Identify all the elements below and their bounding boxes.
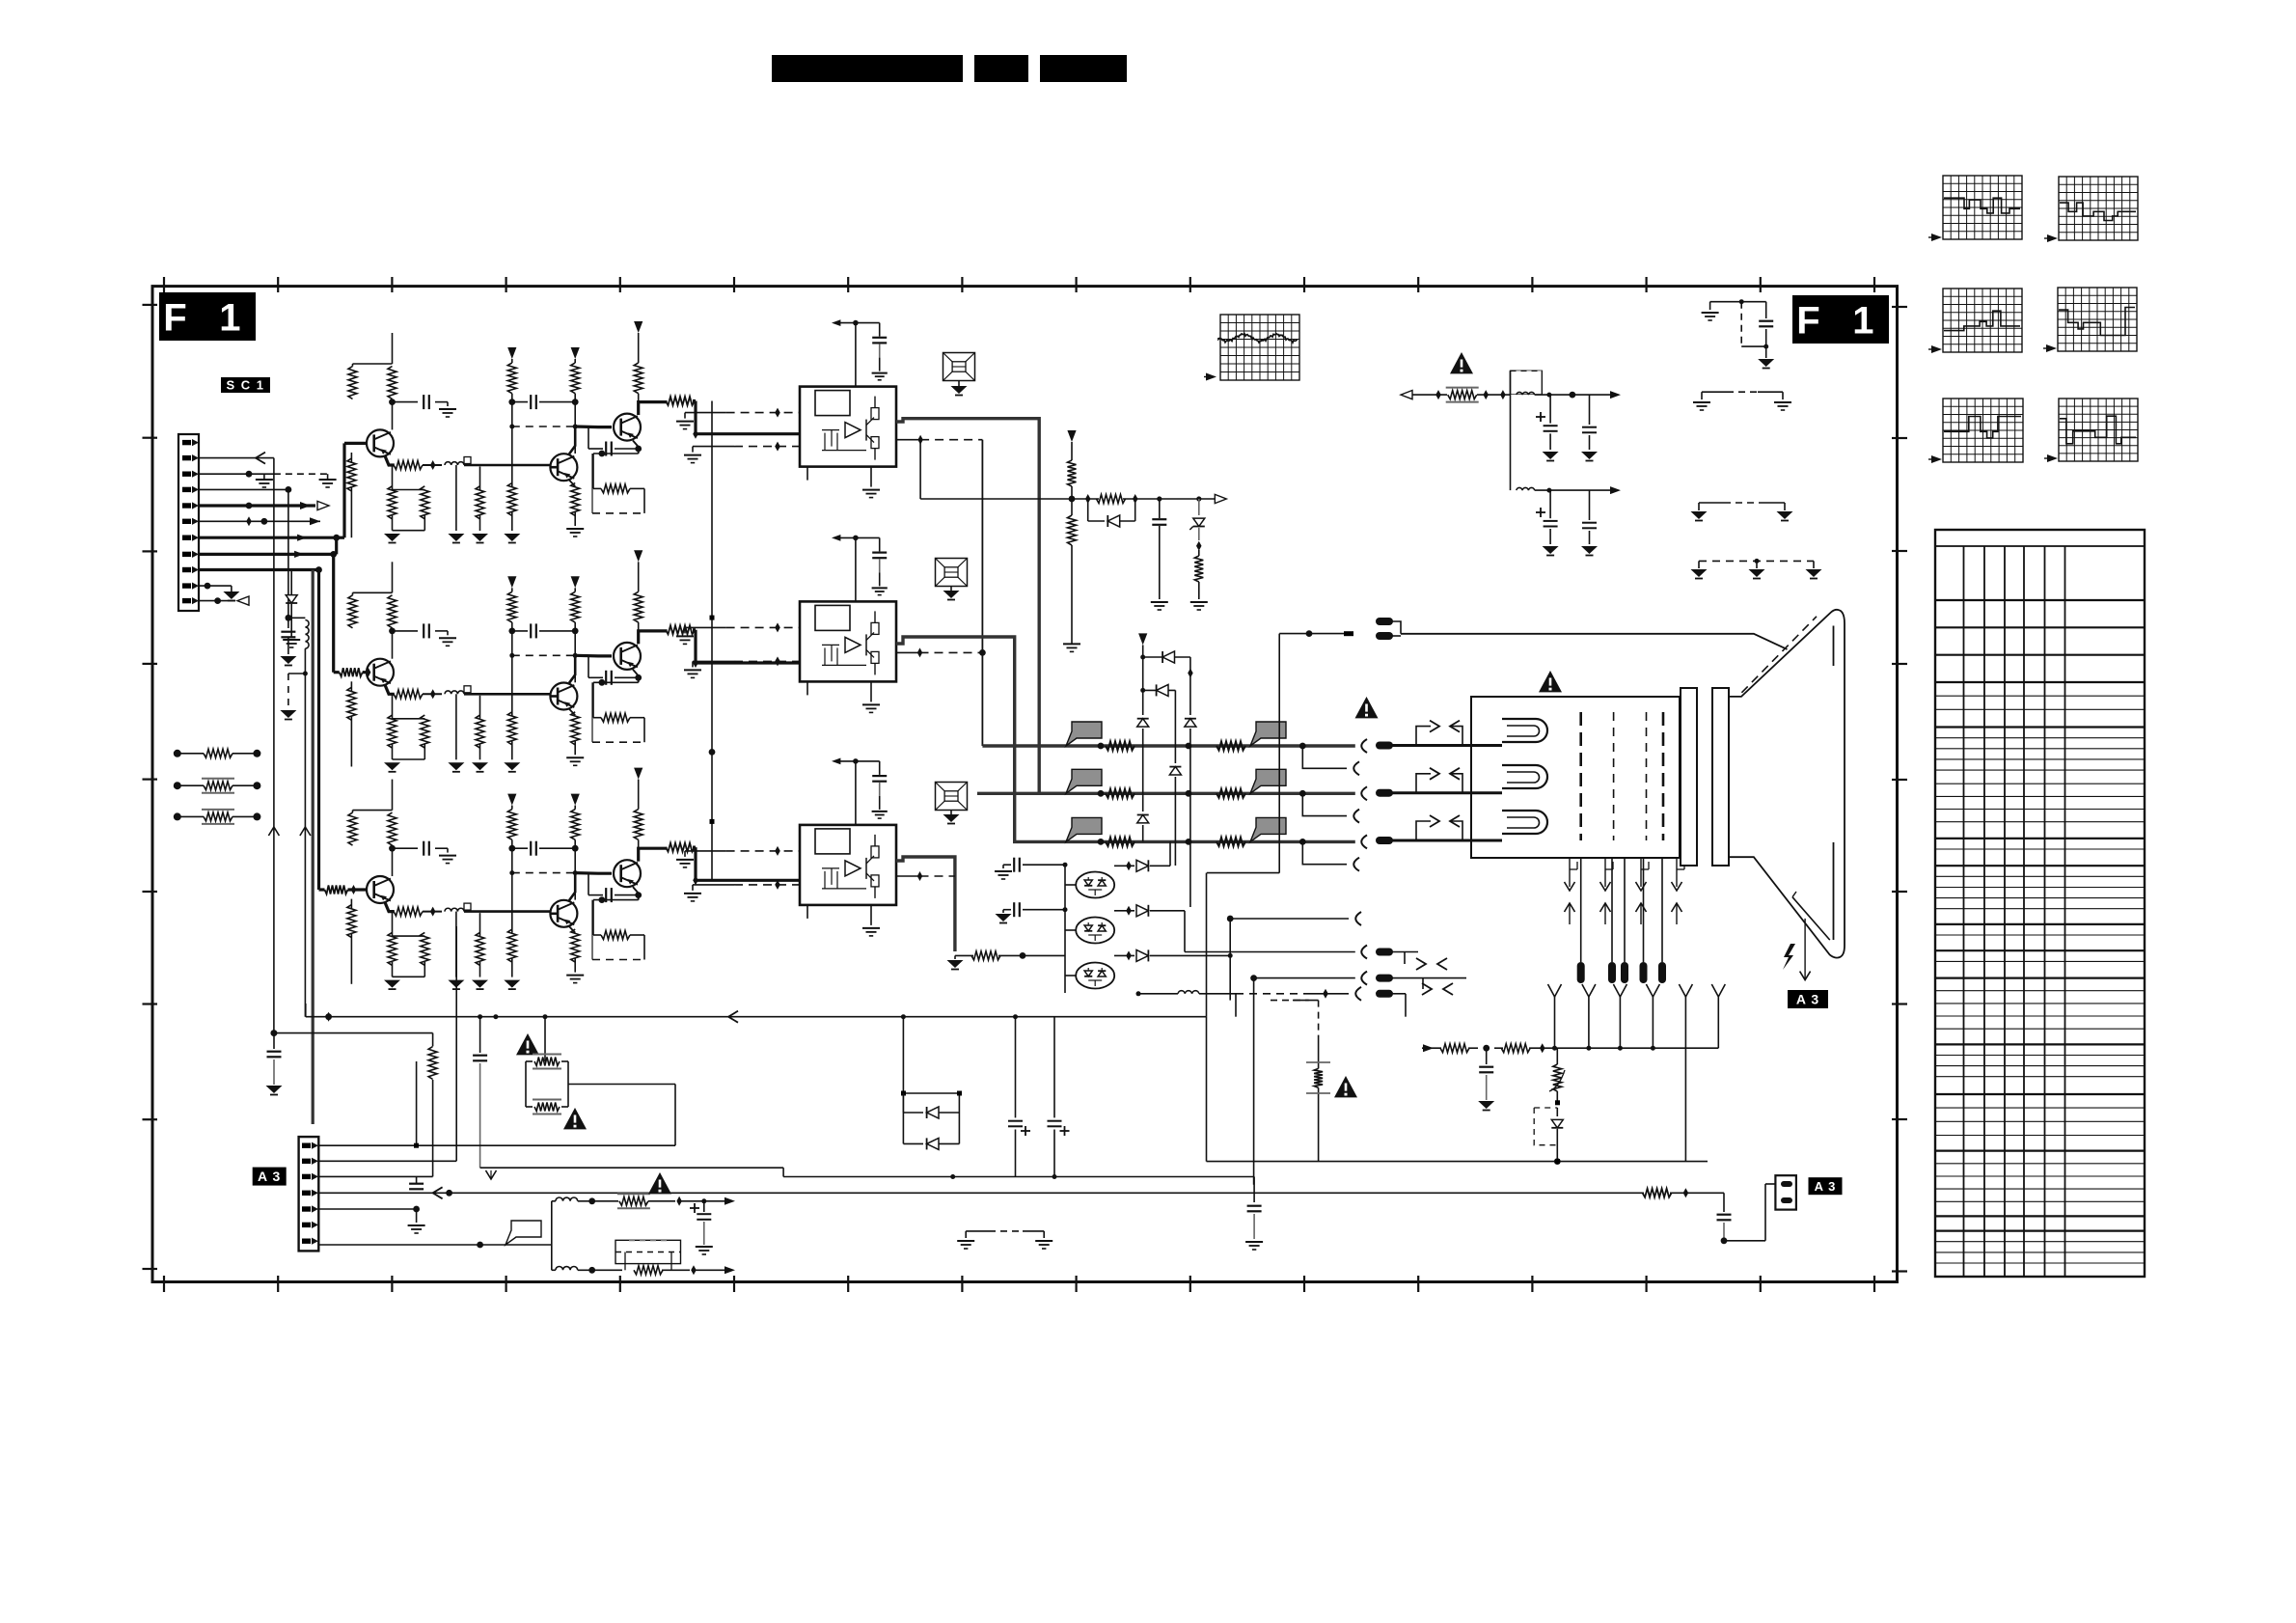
left RC to ground from bus <box>271 1030 278 1036</box>
A3 label near CRT <box>1788 990 1828 1008</box>
diac/opto oval 1 <box>1076 872 1114 898</box>
second supply branch <box>1517 487 1535 490</box>
emitter network <box>385 685 395 695</box>
main horizontal bus lower A <box>1207 1161 1708 1163</box>
dashed bias link <box>512 654 575 656</box>
frame tick marks top/bottom <box>163 277 165 292</box>
supply rail resistor A <box>507 347 516 359</box>
limiter bypass diode <box>1087 499 1089 521</box>
series coil to lower bus <box>288 617 306 619</box>
damping branch <box>455 465 457 531</box>
CRT base spark electrodes (Y) <box>1548 984 1562 997</box>
IC dashed input links <box>726 626 800 628</box>
CRT funnel dashed inner edge <box>1741 617 1817 693</box>
spot killer chain right <box>1423 1044 1434 1052</box>
transistor Q3 output <box>614 643 641 670</box>
fusible safety resistor <box>1448 391 1477 399</box>
waveform scope graticule 6 <box>2059 399 2138 461</box>
SC1 pin <box>182 598 191 603</box>
choke with dashed core box <box>1511 371 1543 394</box>
F1 page label left <box>159 292 256 341</box>
SC1 pin <box>182 487 191 492</box>
title block redacted bar 1 <box>772 55 963 82</box>
Q3 collector resistor <box>634 768 642 780</box>
waveform scope graticule 2 <box>2059 177 2138 240</box>
waveform scope graticule 4 <box>2058 288 2137 351</box>
IC1 output run (thick) <box>896 419 1066 794</box>
Q2-Q3 coupling <box>575 425 612 428</box>
cathode protection diode ladder <box>1138 633 1147 645</box>
SC1 pin <box>182 567 191 572</box>
emitter network <box>385 456 395 466</box>
A3 pin4 wire long with cap <box>318 1192 1644 1194</box>
series resistor A <box>1106 742 1134 751</box>
thermistor drop <box>1556 1048 1558 1064</box>
cathode aux receptacle stubs <box>1299 743 1306 750</box>
IC supply from top <box>832 758 840 765</box>
frame tick marks left/right <box>143 304 158 306</box>
title block redacted bar 2 <box>974 55 1028 82</box>
Q3 collector resistor <box>634 321 642 333</box>
CRT socket receptacle <box>1361 786 1367 800</box>
collector decoupling capacitor <box>389 399 396 405</box>
G1 line with dashes <box>1178 991 1199 994</box>
SC1 fan-out wires <box>199 457 274 459</box>
VDR network bottom middle <box>1271 1000 1309 1002</box>
oval output diodes <box>1114 865 1134 867</box>
SC1 pin <box>182 503 191 508</box>
wire SC1 p9 (thick) <box>199 568 319 571</box>
IC supply from top <box>832 535 840 541</box>
A3 connector body <box>299 1137 319 1251</box>
Q2-Q3 coupling <box>575 871 612 875</box>
stage output to hybrid IC (thick) <box>639 402 668 415</box>
mid vertical taps <box>432 1033 434 1047</box>
series resistor B <box>1216 742 1245 751</box>
probe flag gray B <box>1250 817 1286 841</box>
wire SC1 p3 with ground taps <box>199 473 274 475</box>
supply rail resistor B <box>571 794 580 806</box>
CRT heater filaments <box>1502 719 1547 742</box>
F1 page label right <box>1792 295 1889 344</box>
probe flag gray A <box>1066 817 1102 841</box>
electrolytic caps on bus <box>1015 1017 1017 1118</box>
svg-text:A 3: A 3 <box>1796 992 1819 1007</box>
CRT socket receptacle <box>1361 739 1367 753</box>
deflection yoke <box>1681 688 1697 866</box>
A3 pin7 wire to filter <box>318 1244 479 1246</box>
ground pair bottom <box>965 1231 967 1238</box>
damping branch <box>455 912 457 977</box>
spark gap 3 <box>936 783 968 811</box>
transistor Q2 <box>550 900 577 927</box>
Q3 emitter resistor chain <box>633 887 639 900</box>
waveform scope graticule 1 (top-left of right margin) <box>1943 176 2022 239</box>
CRT anode lead wire <box>1401 634 1788 649</box>
A3 pin <box>302 1223 311 1227</box>
Q3 collector resistor <box>634 550 642 562</box>
probe flag gray B <box>1250 722 1286 746</box>
IC2 aux dashed <box>896 651 920 653</box>
A3 label right <box>1809 1177 1843 1195</box>
SC1 p4 decoupling cap <box>287 489 289 628</box>
left bus verticals descending <box>273 458 275 1033</box>
CRT bulb outline <box>1729 610 1845 958</box>
filter bottom branch with delay line <box>556 1267 578 1271</box>
waveform scope graticule 3 <box>1943 289 2022 352</box>
delay line dashed box <box>615 1240 681 1263</box>
SC1 pin <box>182 472 191 477</box>
warning triangle near CRT socket <box>1355 697 1379 718</box>
IC2 output run (thick) <box>896 637 1066 841</box>
wire SC1 p11 to open arrow <box>199 600 235 602</box>
flashover lightning bolt <box>1783 944 1795 970</box>
A3 pin <box>302 1206 311 1211</box>
branch x1300 cap to ground <box>1253 1177 1255 1203</box>
voltage table at right margin <box>1935 530 2145 1277</box>
IC3 aux dashed <box>896 875 920 877</box>
clamp diode with dashed box <box>1556 1108 1558 1116</box>
wire SC1 p8 (thick) <box>199 553 334 556</box>
transistor Q input <box>319 888 325 891</box>
series resistor A <box>1106 789 1134 798</box>
main schematic border frame <box>152 287 1898 1282</box>
oval feed caps and grounds <box>1003 864 1011 866</box>
Q2 emitter resistor <box>569 481 575 487</box>
transistor Q3 output <box>614 414 641 441</box>
A3 pin <box>302 1143 311 1148</box>
cathode drive line (thick) <box>1066 840 1355 843</box>
filter top branch <box>556 1197 578 1201</box>
supply input arrow <box>1401 391 1412 399</box>
emitter degeneration resistors <box>392 465 394 490</box>
IC1 aux feedback tap <box>896 439 920 441</box>
grid feed line G2 <box>1306 630 1313 637</box>
svg-text:F 1: F 1 <box>1796 299 1884 342</box>
CRT socket terminals (black) <box>1376 618 1393 625</box>
peaking coil <box>445 462 464 465</box>
heater series arrows row1 <box>1392 744 1502 747</box>
wire SC1 p7 (thick) to stage1 base node <box>199 536 340 539</box>
CRT socket receptacle <box>1361 835 1367 848</box>
SC1 pin <box>182 455 191 460</box>
collector decoupling capacitor <box>389 845 396 852</box>
waveform scope graticule 5 <box>1943 399 2023 462</box>
A3 connector right <box>1775 1175 1796 1209</box>
shunt resistor to ground <box>479 913 481 936</box>
heater series arrows row2 <box>1392 791 1502 794</box>
IC internal opamp <box>845 861 861 876</box>
IC ground stub <box>870 681 872 701</box>
electrode lead-outs to pins <box>1580 858 1582 962</box>
ground pair link 2 <box>1698 503 1700 510</box>
IC internal opamp <box>845 423 861 438</box>
peaking coil <box>445 691 464 694</box>
limiter zener <box>1196 496 1201 501</box>
base protection diode <box>290 570 292 595</box>
A3 pin <box>302 1159 311 1164</box>
svg-text:F 1: F 1 <box>163 296 251 339</box>
Q2 emitter resistor <box>569 926 575 933</box>
socket lower pairs <box>1392 951 1418 953</box>
Q2 emitter resistor <box>569 709 575 716</box>
wire SC1 p10 to ground <box>199 585 232 587</box>
collector load resistors <box>392 632 394 658</box>
svg-text:A 3: A 3 <box>258 1169 281 1184</box>
cathode drive line (thick) <box>1066 792 1355 795</box>
spark gap 2 <box>936 559 968 587</box>
Q2-Q3 coupling <box>575 654 612 658</box>
IC internal opamp <box>845 637 861 652</box>
hybrid video output IC <box>800 601 896 681</box>
beam limiter chain <box>1067 430 1076 442</box>
probe flag gray B <box>1250 769 1286 793</box>
emitter network <box>385 902 395 912</box>
heater series arrows row3 <box>1392 839 1502 842</box>
IC dashed input links <box>726 850 800 852</box>
A3 pin2 wire <box>318 1160 456 1162</box>
Q3 feedback cap <box>588 448 603 450</box>
SC1 pin <box>182 536 191 540</box>
supply filter caps branch1 <box>1549 395 1551 424</box>
A3 pin <box>302 1174 311 1179</box>
test point resistor row 1 <box>174 750 181 757</box>
A3 pin <box>302 1191 311 1196</box>
title block redacted bar 3 <box>1040 55 1127 82</box>
probe flag gray A <box>1066 722 1102 746</box>
convergence arrows under gun <box>1569 858 1571 887</box>
warning triangle supply <box>1450 352 1473 373</box>
spark gap 1 <box>943 353 975 381</box>
Q3 feedback cap <box>588 894 603 896</box>
test point resistor row 3 (fusible) <box>174 812 181 820</box>
link from stage area to bus <box>271 1030 278 1036</box>
white probe flag <box>506 1221 541 1245</box>
hybrid video output IC <box>800 387 896 467</box>
double fusible resistor network <box>544 1017 546 1061</box>
waveform scope graticule inside schematic <box>1220 315 1299 380</box>
IC bottom-left stub <box>806 467 808 481</box>
IC bottom-left stub <box>806 905 808 919</box>
Q3 feedback cap <box>588 676 603 678</box>
SC1 pin <box>182 519 191 524</box>
main horizontal bus upper <box>306 1016 1207 1018</box>
interstage coupling cap <box>508 845 515 852</box>
collector load resistors <box>392 850 394 876</box>
right bottom resistor to A3 <box>1643 1189 1672 1197</box>
damping branch <box>455 694 457 759</box>
focus line vertical <box>1278 634 1280 873</box>
IC bottom-left stub <box>806 681 808 695</box>
peaking coil <box>445 908 464 911</box>
lower res feed <box>971 951 1000 960</box>
limiter filter cap <box>1157 496 1162 501</box>
transistor Q3 output <box>614 860 641 887</box>
CRT grid electrodes (dashed) <box>1579 712 1582 840</box>
svg-text:S C 1: S C 1 <box>226 378 264 393</box>
series resistor B <box>1216 838 1245 846</box>
IC dashed input links <box>726 412 800 414</box>
collector load resistors <box>392 403 394 429</box>
CRT gun enclosure <box>1471 697 1680 858</box>
svg-text:A 3: A 3 <box>1815 1179 1837 1194</box>
ground pair link 1 <box>1701 392 1703 399</box>
base bias resistor <box>350 453 352 463</box>
dashed ground stub <box>288 673 306 674</box>
supply rail resistor A <box>507 576 516 588</box>
junction of thick bus to stage bases <box>335 537 338 554</box>
A3 pin5 wire to ground <box>318 1208 416 1210</box>
wire SC1 p6 with arrow <box>199 520 320 522</box>
bridge diodes center-bottom <box>902 1017 904 1144</box>
SC1 pin <box>182 440 191 445</box>
transistor Q input <box>334 671 340 674</box>
test point resistor row 2 (fusible) <box>174 782 181 789</box>
main horizontal bus lower B <box>480 1167 783 1169</box>
transistor Q2 <box>550 683 577 710</box>
shunt resistor to ground <box>479 696 481 719</box>
inter-stage vertical rail <box>711 401 713 881</box>
supply rail resistor B <box>571 576 580 588</box>
wire SC1 p5 (thick) to open arrow <box>199 504 315 507</box>
ground triple link <box>1698 561 1700 568</box>
IC ground stub <box>870 905 872 925</box>
transistor Q input <box>344 442 367 445</box>
base bias resistor <box>350 681 352 692</box>
transistor Q2 <box>550 454 577 481</box>
CRT inner bottom slant <box>1792 897 1830 940</box>
collector decoupling capacitor <box>389 628 396 635</box>
series resistor A <box>1106 838 1134 846</box>
emitter degeneration resistors <box>392 694 394 719</box>
supply rail resistor A <box>507 794 516 806</box>
shunt resistor to ground <box>479 467 481 490</box>
A3 pin <box>302 1239 311 1244</box>
Q3 emitter resistor chain <box>633 441 639 454</box>
interstage coupling cap <box>508 399 515 405</box>
lower tube pin lines <box>1227 916 1234 922</box>
wire SC1 p4 <box>199 488 288 490</box>
hybrid video output IC <box>800 825 896 905</box>
top-right RC to ground cluster <box>1710 301 1766 303</box>
probe flag gray A <box>1066 769 1102 793</box>
interstage coupling cap <box>508 628 515 635</box>
connector SC1 body <box>178 434 199 611</box>
emitter degeneration resistors <box>392 912 394 937</box>
IC supply from top <box>832 319 840 326</box>
base bias resistor <box>350 899 352 910</box>
dashed bias link <box>512 426 575 427</box>
A3 pin3 wire <box>318 1175 432 1177</box>
CRT inner face lines <box>1833 626 1835 667</box>
series resistor B <box>1216 789 1245 798</box>
Q3 emitter resistor chain <box>633 670 639 683</box>
A3 pin1 wire <box>318 1144 416 1146</box>
warning triangle above gun <box>1539 671 1562 692</box>
x497 cap branch <box>479 1017 481 1053</box>
SC1 pin <box>182 583 191 588</box>
dashed bias link <box>512 872 575 874</box>
IC ground stub <box>870 467 872 487</box>
A3 label left <box>253 1168 287 1186</box>
connector label SC1 <box>221 377 270 393</box>
stage output to hybrid IC (thick) <box>639 631 668 644</box>
cathode drive line (thick) <box>1066 744 1355 747</box>
IC3 output run (thick) <box>896 857 955 951</box>
supply rail resistor B <box>571 347 580 359</box>
stage output to hybrid IC (thick) <box>639 848 668 861</box>
final anode arrow to A3 <box>1804 919 1806 980</box>
SC1 pin <box>182 552 191 557</box>
